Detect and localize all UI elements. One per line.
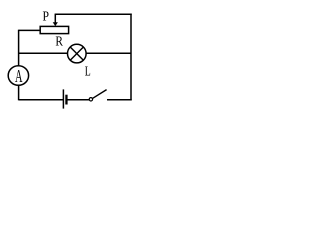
- wire slider drop: [54, 14, 56, 22]
- battery short thick plate: [65, 95, 67, 105]
- lamp cross stroke 1: [70, 47, 83, 60]
- lamp cross stroke 2: [70, 47, 83, 60]
- svg-text:L: L: [85, 65, 91, 80]
- resistor R (rheostat body): [40, 26, 68, 33]
- wire lamp right lead: [86, 52, 131, 54]
- svg-text:P: P: [43, 10, 50, 25]
- wire from switch to bottom-right corner: [107, 99, 132, 101]
- wire right rail: [130, 14, 132, 101]
- wire rheostat left lead: [19, 29, 41, 31]
- battery long plate: [62, 89, 64, 108]
- wire bottom from ammeter corner to battery: [19, 99, 64, 101]
- svg-text:R: R: [55, 35, 63, 50]
- wire left vertical (node joining R, lamp, ammeter): [18, 30, 20, 66]
- wire from battery to switch: [67, 99, 89, 101]
- wire lamp left lead: [19, 52, 68, 54]
- ammeter A circle: [8, 66, 28, 86]
- wire ammeter bottom lead: [18, 85, 20, 100]
- svg-text:A: A: [15, 66, 23, 86]
- lamp L circle: [68, 44, 87, 63]
- switch blade: [93, 90, 107, 99]
- wire top rail from slider to top-right corner: [55, 13, 132, 15]
- switch pivot circle: [89, 98, 92, 101]
- slider arrowhead P: [53, 22, 58, 26]
